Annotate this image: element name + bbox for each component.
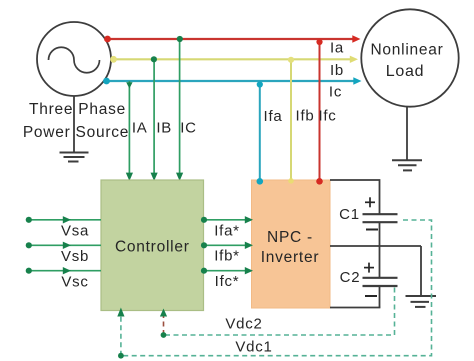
node: Ifc tap on phase A line	[316, 39, 322, 45]
wire: phase B (yellow) source to load	[113, 58, 351, 60]
wire: dc bus midpoint (inverter to ground branch)	[330, 245, 421, 247]
wire: dc bus bottom (inverter to C2)	[330, 307, 380, 309]
arrowhead Vdc1 into controller	[117, 308, 124, 317]
arrowhead IC into controller	[176, 173, 183, 181]
svg-text:C1: C1	[339, 206, 360, 223]
wire: source to ground	[73, 96, 75, 152]
ground (source)	[60, 153, 89, 162]
svg-text:Ia: Ia	[330, 40, 344, 57]
node: Ifb at inverter input	[288, 178, 294, 184]
capacitor C2	[363, 278, 398, 286]
wire: IA sense (green vertical)	[128, 81, 130, 175]
svg-text:Ifa*: Ifa*	[214, 223, 240, 240]
svg-text:Ifa: Ifa	[264, 108, 283, 125]
arrowhead Ifc* into inverter	[245, 267, 253, 274]
wire: Vdc1 riser into controller (dashed)	[120, 316, 122, 356]
arrowhead Vsa	[63, 216, 71, 223]
svg-text:Three Phase: Three Phase	[29, 101, 126, 118]
arrowhead Ifa* into inverter	[245, 216, 253, 223]
svg-text:IB: IB	[156, 120, 172, 137]
svg-text:NPC -: NPC -	[267, 229, 313, 246]
wire: phase C (blue) source to load	[106, 80, 355, 82]
svg-text:IC: IC	[180, 120, 197, 137]
sine wave glyph inside source	[49, 47, 100, 72]
svg-text:Vsa: Vsa	[61, 223, 89, 240]
svg-text:Ib: Ib	[330, 62, 344, 79]
wire: Vsa input	[29, 219, 101, 221]
wire: C2 to dc bus bottom	[379, 286, 381, 308]
node: Ifc at inverter input	[316, 178, 323, 185]
arrowhead IA into controller	[126, 173, 133, 181]
svg-text:Load: Load	[386, 63, 425, 80]
arrowhead Ifb* into inverter	[245, 242, 253, 249]
svg-text:Power Source: Power Source	[23, 124, 129, 141]
nonlinear load (circle symbol)	[361, 9, 458, 106]
node: Ifa at inverter input	[257, 178, 264, 185]
wire: Ifc* reference	[204, 270, 252, 272]
wire: Vsc input	[29, 270, 101, 272]
wire: load to ground	[406, 107, 408, 160]
ground (dc midpoint)	[406, 296, 437, 307]
node: Ifc* at controller	[201, 268, 207, 274]
wire: Vdc1 sense (dashed)	[121, 220, 432, 356]
node: IC tap on phase A line	[177, 36, 183, 42]
capacitor C1	[363, 214, 398, 222]
wire: Ifb filter line (yellow vertical)	[290, 59, 292, 180]
controller block U1	[101, 180, 204, 311]
wire: dc bus top (inverter to C1)	[330, 180, 380, 214]
wire: Vdc2 riser into controller (dashed, dark)	[163, 316, 165, 335]
svg-text:Vsb: Vsb	[61, 248, 89, 265]
node: Ifa* at controller	[201, 217, 207, 223]
svg-text:Nonlinear: Nonlinear	[370, 42, 443, 59]
node: IA tap on phase C line	[126, 82, 132, 88]
three-phase AC source V1 (circle symbol)	[37, 22, 111, 96]
arrowhead IB into controller	[151, 173, 158, 181]
C2 plus sign	[364, 263, 374, 273]
arrowhead Ic into load (blue)	[353, 77, 361, 84]
node: Vdc1 corner	[118, 353, 124, 359]
svg-text:Inverter: Inverter	[261, 249, 320, 266]
wire: Vsb input	[29, 244, 101, 246]
svg-text:IA: IA	[132, 120, 148, 137]
wire: Ifa filter line (blue vertical)	[259, 81, 261, 180]
ground (load)	[392, 160, 422, 170]
node: phase C at source	[103, 78, 110, 85]
node: phase A at source	[104, 36, 111, 43]
wire: IB sense (green vertical)	[153, 59, 155, 174]
wire: midpoint to ground	[420, 246, 422, 296]
node: Ifb tap on phase B line	[288, 57, 294, 63]
NPC inverter block U2	[252, 180, 331, 308]
wire: Ifa* reference	[204, 219, 252, 221]
wire: Ifb* reference	[204, 244, 252, 246]
wire: IC sense (green vertical)	[179, 39, 181, 175]
svg-text:Ifc: Ifc	[318, 108, 336, 125]
svg-text:Vdc2: Vdc2	[225, 316, 262, 333]
node: Vsc source end	[26, 268, 32, 274]
svg-text:C2: C2	[340, 269, 361, 286]
svg-text:Vdc1: Vdc1	[235, 339, 272, 356]
C1 minus sign	[366, 229, 378, 231]
arrowhead Vdc2 into controller	[160, 309, 167, 317]
svg-text:Ifc*: Ifc*	[215, 273, 240, 290]
C2 minus sign	[365, 295, 377, 297]
wire: midpoint to C2	[379, 246, 381, 278]
wire: phase A (red) source to load	[107, 38, 354, 40]
svg-text:Ic: Ic	[329, 84, 342, 101]
node: Vdc2 corner	[161, 332, 167, 338]
svg-text:Controller: Controller	[115, 239, 190, 256]
node: IB tap on phase B line	[151, 56, 157, 62]
wire: Vdc2 sense (dashed)	[164, 288, 395, 336]
node: phase B at source	[110, 56, 117, 63]
arrowhead Ia into load (red)	[352, 35, 360, 42]
svg-text:Vsc: Vsc	[61, 274, 88, 291]
wire: Ifc filter line (red vertical)	[319, 39, 321, 180]
node: Ifb* at controller	[201, 242, 207, 248]
node: Vsb source end	[26, 242, 32, 248]
arrowhead Vsc	[63, 267, 71, 274]
C1 plus sign	[365, 197, 375, 207]
svg-text:Ifb: Ifb	[296, 108, 315, 125]
wire: C1 to midpoint	[379, 222, 381, 246]
arrowhead Vsb	[63, 242, 71, 249]
svg-text:Ifb*: Ifb*	[214, 248, 240, 265]
arrowhead Ib into load (yellow)	[350, 56, 358, 63]
node: Vsa source end	[26, 217, 32, 223]
node: Ifa tap on phase C line	[257, 81, 263, 87]
